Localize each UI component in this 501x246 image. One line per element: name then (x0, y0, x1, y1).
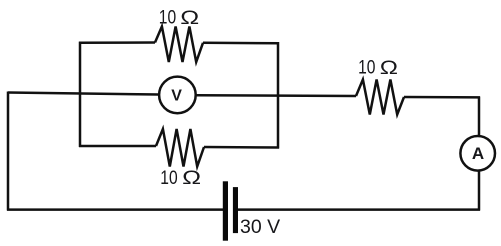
wire: parallel-box left vertical (79, 42, 82, 147)
resistor R1 (top 10 ohm) (155, 27, 203, 63)
label: R1 value 10 Ω (159, 6, 199, 28)
wire: middle bus, right segment (series resistor to right rail) (404, 96, 480, 99)
svg-text:A: A (472, 144, 484, 163)
svg-text:10: 10 (358, 56, 376, 78)
wire: bottom bus, left of battery (7, 208, 223, 211)
wire: left rail vertical (7, 92, 10, 211)
battery 30 V: long plate (left) (223, 181, 228, 240)
label: R3 value 10 Ω (358, 56, 398, 78)
resistor R2 (bottom 10 ohm) (156, 129, 204, 167)
svg-text:Ω: Ω (182, 167, 201, 189)
wire: parallel-box right vertical (277, 42, 280, 149)
wire: top branch, left of R1 (79, 41, 155, 44)
label: R2 value 10 Ω (160, 166, 201, 188)
wire: right rail, below ammeter (478, 171, 481, 211)
svg-text:10: 10 (159, 6, 177, 28)
wire: middle bus, left segment (left rail to voltmeter) (8, 93, 159, 95)
svg-text:V: V (171, 88, 182, 105)
svg-text:30 V: 30 V (240, 216, 280, 238)
svg-text:Ω: Ω (180, 7, 199, 29)
wire: bottom branch, left of R2 (79, 145, 156, 148)
wire: top branch, right of R1 (203, 42, 279, 45)
wire: bottom bus, right of battery (238, 208, 480, 211)
svg-text:10: 10 (160, 166, 178, 188)
resistor R3 (series 10 ohm) (356, 80, 404, 115)
ammeter A (circle) (460, 136, 495, 171)
svg-text:Ω: Ω (380, 56, 398, 78)
wire: right rail, above ammeter (478, 97, 481, 137)
battery 30 V: short plate (right) (233, 187, 238, 233)
wire: bottom branch, right of R2 (204, 146, 279, 149)
wire: middle bus, center segment (voltmeter to series resistor) (197, 94, 357, 97)
voltmeter V (circle) (159, 77, 196, 114)
